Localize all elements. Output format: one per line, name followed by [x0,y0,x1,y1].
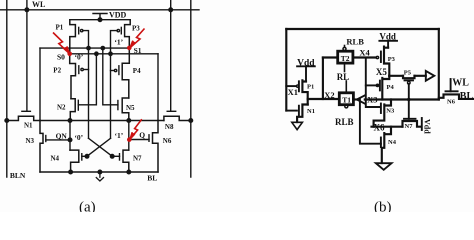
feedback box left edge / X1 input line [285,29,287,111]
wire BL vertical bit line [190,0,192,177]
node dot N7 gate [110,155,114,159]
transistor N4 (b) [382,127,391,163]
node dot BL-N8 [189,119,193,123]
transistor N1 (access) [7,116,40,120]
transistor P3 [125,20,131,48]
T2 control RL stub [344,63,346,71]
svg-text:X4: X4 [359,47,370,57]
feedback box top [286,28,439,30]
wire V1: lineA down to cross-couple diagonal [88,48,90,138]
node dot P5 gate x main row [407,98,410,101]
red SEU arrows figure (a) [53,29,145,142]
T2 control RLB stub + bubble [344,46,346,48]
svg-text:T1: T1 [342,96,351,105]
node dot row-QN [68,119,72,123]
wire V3: lineA down then right to N5 gate [103,48,118,105]
wire N8 gate stub from WL [170,0,172,111]
output arrow (hollow) [426,71,435,81]
node dot rail-N7 [127,170,131,174]
wire line A left corner down to row [39,48,41,120]
svg-text:VDD: VDD [109,10,127,19]
wire ground rail [40,171,158,173]
svg-text:QN: QN [56,132,68,141]
transistor P5 [403,76,415,78]
figure (a) labels [10,0,174,215]
wire row L1 middle [40,120,164,122]
transistor P4 (b) [366,84,379,86]
svg-text:X3: X3 [367,94,377,104]
SEU bolt at S1 [131,29,145,47]
node dot QN [68,138,72,142]
transistor P4 [122,48,129,98]
wire cross-couple diagonal left [89,138,113,156]
T1 right lead [353,98,357,100]
svg-text:X6: X6 [374,122,385,132]
wire P5 gate vertical down to N7 [408,84,410,119]
svg-text:BLN: BLN [10,171,26,180]
svg-text:RLB: RLB [335,117,354,127]
wire BLN vertical bit line [6,0,8,177]
wire QN vertical [69,121,71,151]
SEU bolt at S0 [53,33,69,53]
svg-text:‘0’: ‘0’ [75,53,84,62]
svg-text:P4: P4 [387,84,395,91]
svg-text:N6: N6 [163,137,172,145]
node dot lineB x110.5 [109,52,112,55]
wire line A (S1 row) [40,47,129,49]
transistor N3 (b) [374,100,391,127]
svg-text:N5: N5 [126,104,135,112]
svg-text:P1: P1 [56,24,64,32]
arrow into X3 [357,95,365,103]
transistor P1 (b) [286,85,296,87]
svg-text:RL: RL [337,72,350,82]
svg-text:WL: WL [452,77,469,88]
transistor N4 [70,150,79,172]
node dot rail-N4 [69,170,73,174]
T1 control RLB bubble [345,105,348,108]
svg-text:P5: P5 [404,70,412,77]
svg-text:N3: N3 [386,107,395,114]
transistor N6 [153,121,159,173]
power VDD symbol [93,14,107,20]
transistor P1 [70,20,76,54]
wire line B (S0 row) [70,53,158,55]
power VDD rail [70,19,130,21]
transistor N7 [123,150,129,172]
svg-text:N4: N4 [388,139,397,146]
svg-text:BL: BL [147,174,157,183]
wire cross-couple diagonal right [87,138,111,156]
power Vdd sideways at N7 [421,118,423,130]
svg-text:Q: Q [139,131,145,140]
wire X4 vertical chain (P4,N3 gates) [366,58,380,108]
wire N4 gate vertical [360,100,381,144]
wire N4 gate lead [82,155,87,157]
wire V2: lineB down then left to N2 gate [78,54,96,105]
node dot rail-gnd [98,170,102,174]
transistor P2 [70,54,76,99]
node dot S1 (red) [127,46,132,51]
svg-text:N2: N2 [57,103,66,111]
wire Q vertical [128,121,130,151]
ground symbol [96,172,103,181]
svg-text:N6: N6 [447,98,456,105]
svg-text:Vdd: Vdd [423,119,432,134]
node dot lineA x102.8 [101,46,104,49]
ground under N1 (b) [292,122,303,129]
svg-text:X1: X1 [288,87,298,97]
wire X6 row [372,126,403,128]
svg-text:(b): (b) [374,200,392,213]
main output row X3 [365,98,439,100]
svg-text:Vdd: Vdd [297,58,315,68]
transmission gate T2 [338,51,353,63]
node dot lineA x88.5 [87,46,90,49]
feedback box right edge [438,29,440,100]
wire X5 row to P5 [389,75,403,77]
node dot lineB x96.4 [95,52,98,55]
svg-text:N3: N3 [26,137,35,145]
svg-text:N7: N7 [133,155,142,163]
svg-text:P3: P3 [388,56,396,63]
svg-text:‘0’: ‘0’ [74,133,83,142]
node dot S0 (red) [67,52,72,57]
wire N7 gate lead [112,155,119,157]
svg-text:P3: P3 [132,25,140,33]
svg-text:N4: N4 [51,154,60,162]
transistor P3 (b) [384,47,389,76]
SEU bolt at Q [131,119,142,138]
transistor N7 (b) [404,118,416,120]
transistor N2 [70,99,75,121]
svg-text:RLB: RLB [346,37,364,47]
transistor N1 (b) [286,110,297,112]
svg-text:N1: N1 [24,121,33,129]
svg-text:(a): (a) [79,200,96,213]
svg-text:N1: N1 [307,108,315,115]
wire N1 gate stub from WL [26,0,28,111]
ground under N4 (b) [376,163,392,170]
svg-text:P4: P4 [133,67,141,75]
svg-text:N8: N8 [165,123,174,131]
figure (b) labels [288,32,474,216]
svg-text:T2: T2 [341,54,350,63]
svg-text:N7: N7 [405,123,414,130]
wire T2 left lead drop to X2 [322,58,324,100]
svg-text:Vdd: Vdd [379,32,396,42]
node dot BLN-N1 [5,119,9,123]
svg-text:X2: X2 [324,90,334,100]
svg-text:P2: P2 [53,66,61,74]
node dot N4 gate [85,155,89,159]
node dot row-Q [127,119,131,123]
transistor N6 (b) [450,79,452,91]
transistor N8 (access) [164,116,191,120]
wire X2 row [308,98,340,100]
power Vdd symbol over P3 (b) [379,41,397,48]
node dot WL-N8 gate [169,8,173,12]
wire line B right corner down to row [157,54,159,121]
node dot VDD [98,18,102,22]
node dot WL-N1 gate [25,8,29,12]
wire P5 output [415,75,426,77]
wire WL horizontal line [0,9,199,11]
svg-text:S0: S0 [57,53,65,62]
svg-text:P1: P1 [307,84,314,91]
wire V4: lineB down to cross-couple diagonal (P3/P4 gate line) [110,54,112,139]
T2 left lead [323,56,338,58]
power Vdd symbol over X1 [297,66,315,81]
svg-text:X5: X5 [376,67,387,77]
svg-text:WL: WL [32,0,45,9]
transistor N5 [122,98,129,121]
transmission gate T1 [339,93,353,105]
svg-text:BL: BL [460,91,474,102]
T2 right lead / X4 row [353,56,376,58]
T1 control RL stub [345,81,347,93]
transistor N3 [40,121,43,173]
svg-text:‘1’: ‘1’ [115,131,124,140]
svg-text:S1: S1 [134,46,142,55]
node dot Q (red) [127,137,132,142]
svg-text:‘1’: ‘1’ [114,38,123,47]
